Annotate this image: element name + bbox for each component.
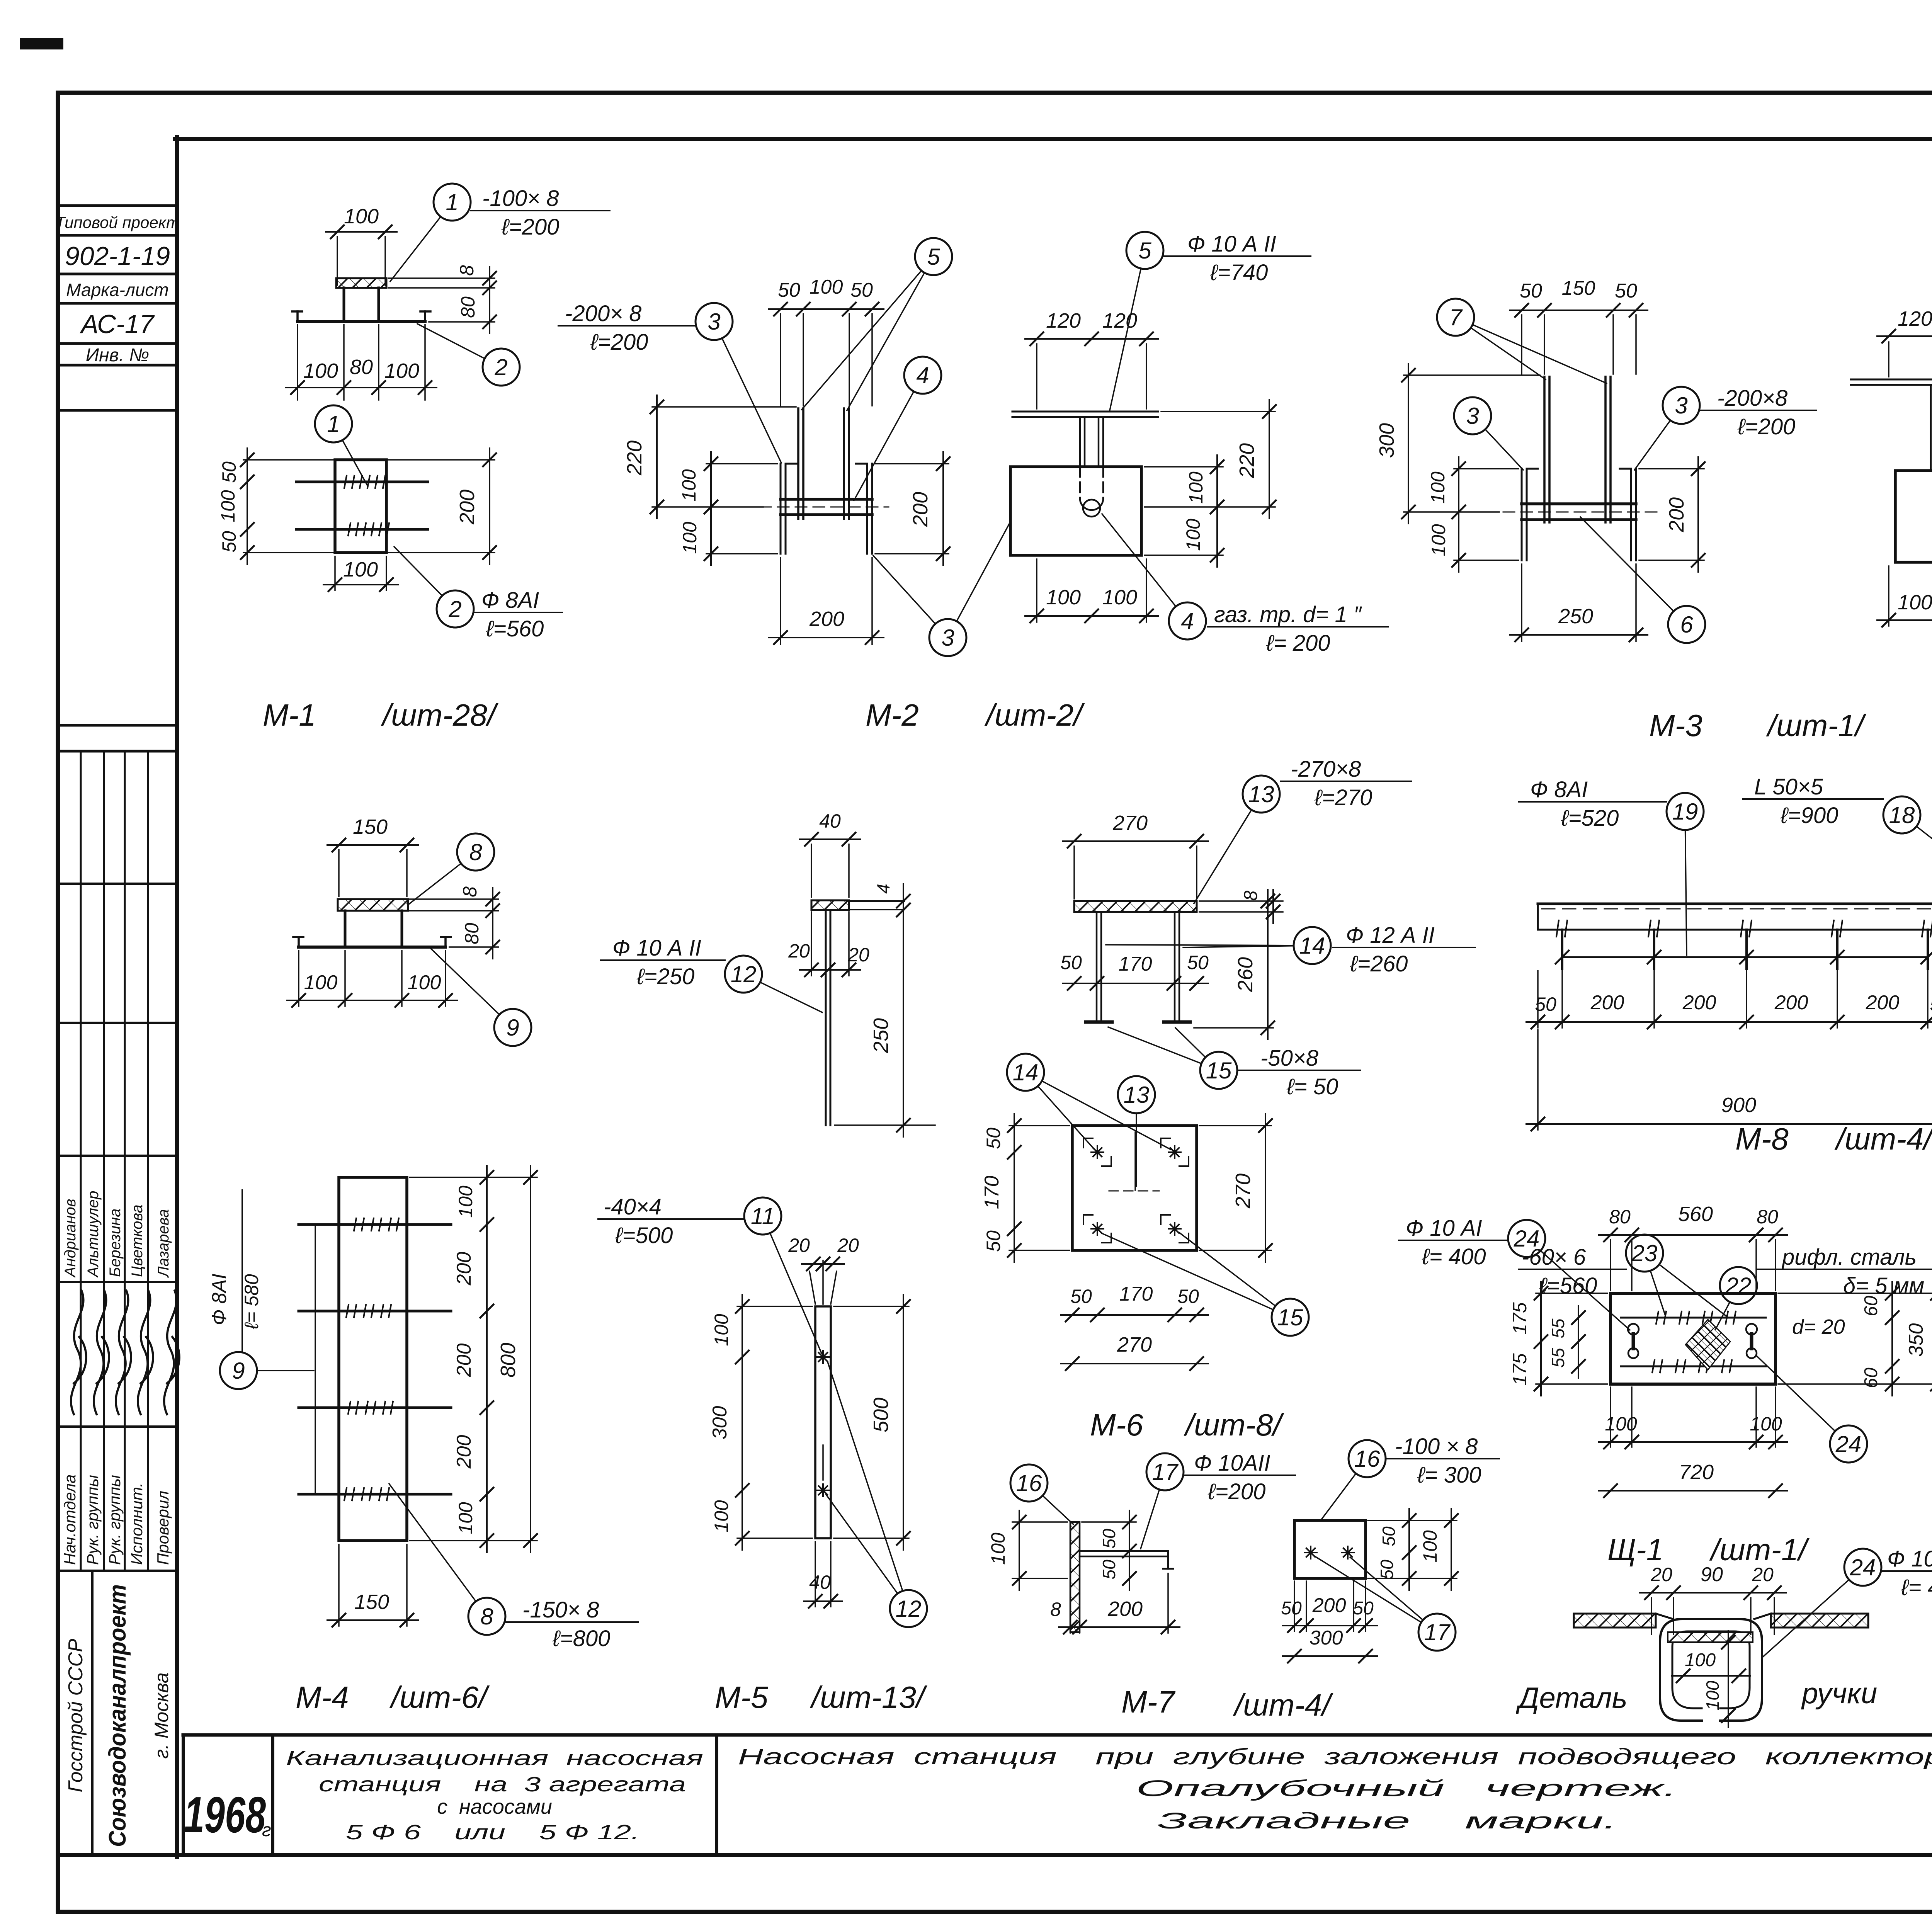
M-8 dims 50/200x4/50 [1526,971,1932,1029]
svg-text:19: 19 [1672,799,1698,825]
svg-text:20: 20 [837,1235,859,1256]
svg-text:/шт-1/: /шт-1/ [1709,1532,1810,1567]
svg-text:М-1: М-1 [263,698,316,732]
svg-text:Нач.отдела: Нач.отдела [61,1475,79,1565]
svg-text:902-1-19: 902-1-19 [65,241,170,271]
M-2 U-pin [1080,417,1103,517]
stamp column box lines [58,206,177,751]
M-2 label [866,698,1085,732]
svg-text:80: 80 [350,355,373,379]
M-3 callout 6 left [1580,517,1705,643]
svg-text:16: 16 [1016,1470,1042,1496]
M-1 plan callout 1 [315,405,367,485]
svg-text:800: 800 [497,1343,520,1378]
handle callout 24 [1762,1549,1881,1658]
svg-text:-100 × 8: -100 × 8 [1395,1434,1478,1459]
svg-text:8: 8 [480,1604,493,1629]
svg-text:8: 8 [1050,1599,1061,1620]
svg-text:120: 120 [1102,309,1137,332]
Shch-1 d=20 text [1792,1315,1845,1338]
svg-text:ℓ= 400: ℓ= 400 [1422,1244,1486,1269]
M-2 spec газ.тр. [1207,602,1388,656]
Shch-1 bottom dims [1599,1387,1787,1497]
M-4 callout 9 plan [208,1190,314,1389]
svg-text:15: 15 [1277,1304,1303,1330]
handle channel outer [1660,1619,1762,1721]
M-5 callout 11 [744,1197,821,1353]
svg-text:8: 8 [1241,890,1261,901]
svg-text:100: 100 [1898,591,1932,614]
svg-text:20: 20 [788,940,810,962]
svg-text:24: 24 [1850,1554,1876,1580]
svg-text:560: 560 [1678,1202,1713,1226]
svg-text:55: 55 [1548,1348,1568,1368]
M-4 section [293,899,451,947]
svg-text:120: 120 [1898,307,1932,330]
M-1 label [263,698,499,732]
svg-text:г. Москва: г. Москва [151,1672,172,1759]
M-5 section plate [811,900,904,910]
svg-text:200: 200 [1774,992,1808,1014]
M-2 callout 4 left [854,357,941,500]
svg-text:20: 20 [1650,1564,1672,1585]
svg-text:8: 8 [469,839,482,865]
svg-text:40: 40 [809,1571,831,1593]
M-1 section plate/stem/flange [292,278,430,321]
svg-text:50: 50 [218,461,240,483]
svg-text:/шт-4/: /шт-4/ [1233,1688,1333,1722]
svg-text:Проверил: Проверил [154,1491,172,1565]
M-7 plan stars [1304,1546,1354,1559]
svg-text:2: 2 [448,596,461,622]
M-6 dim 260 [1194,889,1274,1039]
M-2 top dim 50/100/50 [769,276,884,406]
M-6 dim 8 [1199,889,1283,923]
svg-text:4: 4 [873,884,893,894]
Shch-1 rebar rows [1621,1311,1766,1372]
svg-text:100: 100 [1419,1530,1441,1563]
svg-text:100: 100 [408,971,441,994]
stamp text г. Москва [151,1672,172,1759]
svg-text:-40×4: -40×4 [604,1194,662,1219]
M-7 label [1121,1685,1333,1722]
svg-text:100: 100 [343,558,378,581]
svg-text:ℓ=500: ℓ=500 [615,1223,673,1248]
svg-text:12: 12 [896,1596,922,1622]
svg-text:100: 100 [1605,1413,1637,1435]
M-4 label [296,1680,490,1714]
svg-text:станция на 3 агрегата: станция на 3 агрегата [319,1773,686,1796]
M-7 bottom dims 8/200 [1050,1573,1180,1634]
M-5 section pin [826,910,830,1125]
svg-text:М-7: М-7 [1121,1685,1175,1719]
M-3 callout 7 left [1437,299,1607,383]
svg-text:150: 150 [1562,277,1595,299]
svg-text:100: 100 [1428,524,1449,556]
M-5 callout 12 section [725,956,822,1012]
M-6 callout 13 section [1194,776,1280,903]
svg-text:-200×8: -200×8 [1717,386,1787,411]
handle spec Ф10АI l=400 [1882,1546,1932,1600]
handle text ручки [1801,1677,1877,1710]
svg-text:Березина: Березина [107,1209,124,1277]
stamp text Госстрой СССР [65,1639,87,1793]
M-5 plan bottom dim 40 [804,1542,842,1608]
svg-text:14: 14 [1013,1060,1039,1085]
svg-text:270: 270 [1112,811,1148,835]
svg-text:200: 200 [453,1252,475,1286]
M-5 plan strip [815,1306,831,1538]
svg-text:16: 16 [1354,1446,1380,1472]
svg-text:100: 100 [711,1500,732,1532]
svg-text:50: 50 [1520,280,1542,302]
M-3r bottom dim 100/100 [1877,566,1932,627]
M-1 plan bottom dim 100 [323,556,398,591]
M-3 left dim 300 [1375,364,1540,524]
Shch-1 callout 22 [1716,1267,1757,1329]
svg-text:рифл. сталь: рифл. сталь [1781,1245,1917,1270]
svg-text:17: 17 [1424,1619,1451,1645]
M-6 plan corner anchors [1083,1132,1189,1243]
Shch-1 spec рифл сталь [1757,1245,1932,1298]
svg-text:ℓ=560: ℓ=560 [1539,1273,1597,1298]
stamp text Марка-лист [66,280,168,300]
handle dim 100 h [1672,1650,1750,1682]
svg-text:-200× 8: -200× 8 [565,301,641,326]
M-4 plan right dims [410,1166,537,1552]
M-1 plan rebar rows [296,476,428,536]
M-6 label [1090,1408,1284,1442]
svg-text:ℓ= 580: ℓ= 580 [241,1274,262,1330]
M-8 spec Ф8АI l=520 [1519,777,1667,831]
signature table names [62,1191,172,1278]
M-4 section right dim 8/80 [410,886,499,959]
svg-text:100: 100 [679,522,701,554]
svg-text:200: 200 [1682,992,1716,1014]
svg-text:/шт-1/: /шт-1/ [1766,708,1867,743]
M-7 dim 100 [987,1510,1067,1590]
M-6 callout 15 section [1108,1027,1237,1089]
M-6 spec Ф12АII l=260 [1333,923,1475,976]
svg-text:270: 270 [1231,1173,1255,1209]
M-1 callout 1 section [390,184,471,281]
svg-text:М-2: М-2 [866,698,919,732]
svg-text:2: 2 [494,354,507,380]
Shch-1 top dims 80/560/80 [1599,1202,1787,1291]
svg-text:ℓ=270: ℓ=270 [1314,785,1372,810]
svg-text:Ф 10 А ІІ: Ф 10 А ІІ [612,935,701,961]
Shch-1 right dims [1778,1282,1932,1396]
svg-text:80: 80 [1609,1206,1631,1228]
svg-text:/шт-2/: /шт-2/ [984,698,1085,732]
M-5 callout 12 plan [826,1362,927,1627]
svg-text:ℓ=900: ℓ=900 [1780,803,1838,828]
M-8 callout 19 top [1667,793,1704,955]
svg-text:/шт-6/: /шт-6/ [389,1680,490,1714]
M-6 plan bottom dims [1061,1283,1208,1370]
svg-text:3: 3 [707,309,720,335]
M-2 left dim 100/100 [678,452,777,565]
M-5 section dim 4 [873,884,910,927]
svg-text:4: 4 [1181,608,1194,634]
M-6 callout 14 section [1106,927,1331,964]
M-3 spec -200x8 right [1700,386,1816,439]
M-1 section top dim 100 [326,205,397,285]
M-2 flange top [1012,412,1158,417]
svg-text:Лазарева: Лазарева [155,1209,172,1278]
svg-text:720: 720 [1679,1461,1714,1484]
svg-text:50: 50 [1281,1598,1302,1619]
svg-text:100: 100 [455,1502,476,1534]
M-7 plan bottom dims [1281,1581,1377,1663]
svg-text:50: 50 [1099,1529,1119,1549]
svg-text:L 50×5: L 50×5 [1754,774,1823,799]
M-2 spec Ф10АII l=740 [1164,231,1311,285]
svg-text:50: 50 [1070,1286,1092,1307]
svg-text:3: 3 [941,625,954,651]
svg-text:6: 6 [1680,612,1693,638]
M-1 spec Ф8АI l=560 [474,588,562,641]
svg-text:200: 200 [1590,992,1624,1014]
svg-text:13: 13 [1248,781,1274,807]
handle left plate [1574,1614,1673,1628]
M-6 plan square [1072,1126,1197,1250]
svg-text:150: 150 [353,815,388,838]
svg-text:50: 50 [218,531,240,553]
M-3 pins [1544,377,1611,522]
handle top dims 20/90/20 [1640,1563,1786,1634]
svg-text:Марка-лист: Марка-лист [66,280,168,300]
svg-text:60: 60 [1861,1367,1881,1388]
M-2 callout 5 top [1110,232,1163,410]
M-3 right dim 200 [1639,457,1705,572]
svg-text:Ф 10 АІ: Ф 10 АІ [1887,1546,1932,1571]
svg-text:300: 300 [709,1406,731,1440]
M-4 callout 8 plan [389,1484,505,1635]
M-6 spec -270x8 l=270 [1281,757,1411,810]
M-2 left dim 220 [623,395,796,519]
svg-text:ℓ=800: ℓ=800 [552,1626,610,1651]
stamp text Типовой проект [55,213,180,231]
svg-text:ℓ=200: ℓ=200 [501,214,559,240]
svg-text:15: 15 [1206,1058,1232,1083]
Shch-1 callout 24 bottom [1756,1355,1867,1463]
M-2 spec -200x8 left [558,301,696,355]
M-3r block [1895,471,1932,562]
svg-text:/шт-28/: /шт-28/ [381,698,499,732]
svg-text:100: 100 [678,469,700,502]
signature table lines [58,751,177,1571]
svg-text:80: 80 [1757,1206,1778,1228]
M-7 plan right dims [1368,1509,1458,1590]
M-7 spec -100x8 l=300 [1386,1434,1499,1488]
svg-text:ℓ=200: ℓ=200 [590,330,648,355]
svg-text:9: 9 [506,1015,519,1041]
drawing frame left [175,137,179,1857]
handle channel inner [1672,1631,1750,1708]
stamp text Союзводоканалпроект [104,1584,131,1847]
svg-text:М-5: М-5 [715,1680,768,1714]
svg-text:-50×8: -50×8 [1260,1046,1318,1071]
svg-text:100: 100 [1182,519,1204,551]
svg-text:80: 80 [457,296,479,318]
M-8 pins [1556,920,1932,969]
M-1 plan rectangle [335,460,386,553]
M-2 right dims 220/100/100 [1145,400,1276,567]
svg-text:900: 900 [1721,1094,1756,1117]
svg-text:Ф 8АІ: Ф 8АІ [1530,777,1588,802]
M-4 section top dim 150 [327,815,418,896]
svg-text:13: 13 [1124,1082,1150,1108]
Shch-1 spec Ф10АI l=400 [1399,1216,1508,1269]
svg-text:50: 50 [1615,280,1637,302]
svg-text:200: 200 [453,1435,475,1469]
svg-text:300: 300 [1375,423,1398,458]
M-8 pin line [1556,951,1932,964]
svg-text:200: 200 [1866,992,1900,1014]
M-6 plan left dims [981,1114,1070,1262]
svg-text:50: 50 [1187,952,1209,973]
svg-text:ℓ=560: ℓ=560 [486,616,544,641]
M-3r dim 120/120 [1877,307,1932,377]
svg-text:100: 100 [303,359,338,383]
svg-text:-60× 6: -60× 6 [1522,1245,1586,1270]
svg-text:220: 220 [1235,443,1259,478]
M-7 section plate [1070,1522,1080,1632]
svg-text:1: 1 [446,189,458,215]
svg-text:22: 22 [1725,1273,1752,1299]
M-5 plan right dim 500 [834,1295,910,1550]
svg-text:100: 100 [384,359,419,383]
M-6 top dim 270 [1063,811,1208,899]
frame bottom / title block bottom [58,1853,1932,1857]
svg-text:Ф 12 А ІІ: Ф 12 А ІІ [1346,923,1435,948]
Shch-1 label [1607,1532,1810,1567]
svg-text:300: 300 [1310,1627,1343,1649]
svg-text:Закладные марки.: Закладные марки. [1157,1808,1617,1833]
stamp text 902-1-19 [65,241,170,271]
M-8 dim 900 [1526,1030,1932,1131]
M-3r U-pin [1931,385,1932,519]
Shch-1 left dims [1509,1282,1607,1396]
M-5 spec Ф10АII l=250 [601,935,725,989]
svg-text:100: 100 [810,276,843,298]
stamp text Инв № [86,345,149,366]
M-3 callout 3 right [1634,387,1700,470]
svg-text:ℓ=200: ℓ=200 [1207,1479,1265,1504]
svg-text:δ= 5 мм: δ= 5 мм [1843,1273,1924,1298]
signature table roles [61,1475,172,1565]
svg-text:Альтшулер: Альтшулер [85,1191,102,1278]
svg-text:50: 50 [1099,1560,1119,1580]
svg-text:50: 50 [778,279,800,301]
M-7 spec Ф10АII l=200 [1184,1451,1295,1504]
svg-text:100: 100 [455,1185,476,1218]
M-7 plan rectangle [1294,1520,1366,1578]
svg-text:350: 350 [1905,1323,1927,1357]
M-3 plate section [1503,504,1658,520]
svg-text:200: 200 [453,1344,475,1378]
svg-text:14: 14 [1299,933,1325,959]
svg-text:20: 20 [847,944,869,966]
M-6 callout 15 plan [1102,1233,1309,1336]
M-4 spec -150x8 l=800 [506,1597,638,1651]
M-7 callout 17 section [1141,1453,1184,1549]
M-5 spec -40x4 l=500 [598,1194,744,1248]
svg-text:170: 170 [981,1176,1003,1209]
M-6 mid dims 50/170/50 [1060,952,1209,990]
handle text Деталь [1515,1682,1628,1714]
M-3 top dim 50/150/50 [1510,277,1648,374]
handle right plate [1754,1614,1868,1628]
M-6 callout 13 plan [1118,1076,1155,1186]
M-6 callout 14 plan [1007,1054,1171,1150]
svg-text:50: 50 [983,1128,1004,1149]
M-8 callout 18 [1883,796,1932,911]
M-1 section bottom dims [286,325,437,400]
M-5 plan left dims [709,1295,812,1550]
svg-text:270: 270 [1117,1333,1152,1356]
M-5 plan stars [817,1351,829,1497]
M-2 callout 5 left [802,238,952,410]
svg-text:250: 250 [1558,605,1593,628]
svg-text:175: 175 [1509,1302,1531,1335]
svg-text:8: 8 [459,886,481,897]
M-1 plan left dim 50/100/50 [217,448,335,564]
svg-text:100: 100 [1685,1650,1716,1670]
M-3 left dim 100/100 [1427,457,1519,572]
svg-text:17: 17 [1152,1459,1179,1485]
M-2 dim 120/120 [1025,309,1158,409]
title object text [286,1747,703,1844]
svg-text:100: 100 [217,490,239,522]
M-2 right block [856,464,872,554]
svg-text:ℓ=520: ℓ=520 [1561,806,1619,831]
M-1 plan right dim 200 [388,448,496,564]
M-8 spec L50x5 l=900 [1743,774,1883,828]
svg-text:50: 50 [1379,1526,1399,1546]
svg-text:100: 100 [1750,1413,1782,1435]
svg-text:8: 8 [456,265,478,276]
svg-text:/шт-4/: /шт-4/ [1834,1122,1932,1156]
svg-text:Инв. №: Инв. № [86,345,149,366]
M-3 left angle [1522,469,1538,560]
title year 1968 [184,1786,276,1843]
svg-text:Цветкова: Цветкова [129,1204,146,1277]
svg-text:100: 100 [711,1314,732,1346]
scan artifact top-left [20,38,63,49]
svg-text:150: 150 [354,1590,389,1614]
M-4 plan bottom dim 150 [327,1544,418,1627]
M-1 section right dim 8/80 [388,265,496,333]
svg-text:М-6: М-6 [1090,1408,1143,1442]
M-6 spec -50x8 l=50 [1237,1046,1360,1099]
M-5 label [715,1680,928,1714]
svg-text:200: 200 [1312,1594,1346,1617]
M-2 pins [798,408,849,519]
Shch-1 plate [1611,1293,1776,1384]
M-4 plan rectangle [339,1177,407,1541]
svg-text:Ф 10АІІ: Ф 10АІІ [1194,1451,1270,1476]
svg-text:ℓ= 50: ℓ= 50 [1286,1074,1338,1099]
svg-text:100: 100 [1185,471,1207,504]
M-6 plan right dim 270 [1199,1114,1272,1262]
svg-text:200: 200 [1107,1597,1143,1621]
M-4 section bottom dims [287,951,457,1007]
svg-text:-150× 8: -150× 8 [522,1597,599,1622]
svg-text:М-3: М-3 [1649,708,1702,743]
Shch-1 bolts [1628,1324,1757,1358]
